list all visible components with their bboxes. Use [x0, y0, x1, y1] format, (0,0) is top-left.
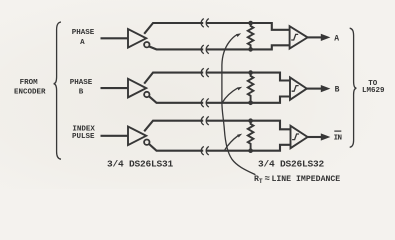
RT pointer stem	[222, 35, 256, 175]
svg-text:ENCODER: ENCODER	[14, 88, 46, 96]
svg-text:3/4 DS26LS31: 3/4 DS26LS31	[107, 159, 174, 170]
svg-text:PHASE: PHASE	[72, 29, 95, 37]
svg-text:LM629: LM629	[362, 87, 385, 95]
svg-text:RT≈LINE IMPEDANCE: RT≈LINE IMPEDANCE	[254, 174, 340, 185]
hysteresis mark U2B	[292, 86, 299, 92]
wire: row A non-inverting line	[144, 23, 289, 34]
overline of IN	[334, 130, 341, 132]
RT pointer arrowhead row I	[237, 134, 242, 138]
node dot row B bottom	[248, 101, 253, 106]
hysteresis mark U2C	[292, 134, 299, 140]
RT pointer branch row B	[222, 88, 237, 102]
RT pointer arrowhead row A	[236, 33, 241, 37]
node dot row B top	[248, 70, 253, 75]
break marks row A bottom	[203, 48, 206, 51]
wire: phase A input	[101, 37, 129, 39]
break marks row B bottom	[203, 101, 206, 104]
svg-text:A: A	[80, 39, 85, 47]
svg-text:IN: IN	[334, 135, 342, 143]
wire: phase B input	[101, 87, 129, 89]
wire: row A inverting line	[149, 45, 290, 49]
RT pointer arrowhead row B	[237, 87, 242, 91]
receiver U2C triangle	[291, 126, 308, 148]
resistor RT row A	[248, 23, 254, 49]
wire: row B output	[307, 88, 322, 90]
svg-text:FROM: FROM	[20, 79, 39, 87]
driver U1C triangle	[128, 127, 146, 146]
break marks row B top	[203, 71, 206, 74]
driver U1B triangle	[128, 79, 146, 98]
node dot row I bottom	[248, 148, 253, 153]
driver U1A triangle	[128, 29, 146, 48]
resistor RT row B	[248, 73, 254, 103]
wire: index input	[101, 135, 129, 137]
arrowhead row I	[321, 133, 331, 140]
break marks row I bottom	[203, 149, 206, 152]
wire: row I inverting line	[149, 144, 291, 151]
wire: row B non-inverting line	[144, 73, 290, 84]
hysteresis mark U2A	[291, 34, 298, 40]
wire: row B inverting line	[149, 96, 290, 103]
resistor RT row I	[248, 121, 254, 151]
driver U1A bubble	[144, 42, 149, 47]
left bracket	[54, 22, 61, 159]
driver U1C bubble	[144, 140, 149, 145]
wire: row I output	[308, 136, 322, 138]
node dot row A bottom	[248, 47, 253, 52]
receiver U2A triangle	[290, 26, 308, 48]
arrowhead row B	[321, 85, 331, 92]
RT pointer branch row I	[225, 136, 238, 150]
svg-text:B: B	[335, 86, 340, 95]
svg-text:PULSE: PULSE	[72, 133, 95, 141]
driver U1B bubble	[144, 92, 149, 97]
wire: row A output	[308, 36, 322, 38]
node dot row A top	[248, 21, 253, 26]
wire: row I non-inverting line	[144, 121, 290, 132]
break marks row A top	[203, 21, 206, 24]
svg-text:B: B	[79, 88, 84, 96]
svg-text:3/4 DS26LS32: 3/4 DS26LS32	[258, 159, 325, 170]
receiver U2B triangle	[290, 77, 307, 99]
svg-text:PHASE: PHASE	[70, 79, 93, 87]
right bracket	[350, 28, 357, 147]
arrowhead row A	[321, 34, 331, 41]
svg-text:A: A	[334, 34, 339, 43]
node dot row I top	[248, 118, 253, 123]
break marks row I top	[203, 119, 206, 122]
